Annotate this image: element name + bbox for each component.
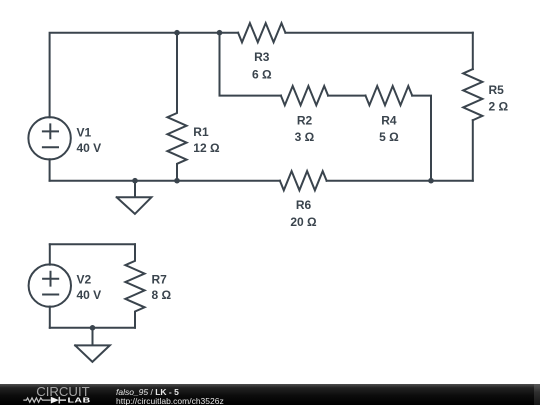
- wire R6 right through node C to bottom-right corner: [327, 180, 473, 182]
- resistor R7 with leads: [125, 244, 144, 327]
- svg-text:LAB: LAB: [67, 396, 90, 404]
- svg-text:R3: R3: [254, 50, 270, 64]
- resistor R2: [281, 86, 328, 105]
- svg-text:3 Ω: 3 Ω: [295, 130, 315, 144]
- svg-text:40 V: 40 V: [77, 288, 102, 302]
- wire V2 top lead: [49, 244, 51, 264]
- junction dot R1 bottom: [174, 178, 180, 184]
- resistor R1 with leads: [167, 33, 186, 181]
- V1 plus sign: [43, 124, 58, 138]
- footer url line: [116, 397, 224, 406]
- svg-text:12 Ω: 12 Ω: [193, 141, 220, 155]
- voltage source V1 circle: [28, 117, 70, 159]
- svg-text:V2: V2: [77, 272, 92, 286]
- wire top-left from V1 top up and right to node A: [50, 33, 177, 118]
- V1 minus sign: [43, 146, 58, 148]
- svg-text:R4: R4: [381, 114, 397, 128]
- junction dot ground tap: [132, 178, 138, 184]
- footer title line: [116, 388, 179, 397]
- ground symbol under bottom rail: [117, 181, 152, 214]
- wire V1 bottom lead: [49, 159, 51, 181]
- svg-text:6 Ω: 6 Ω: [252, 67, 272, 81]
- footer bar: [0, 384, 540, 405]
- svg-text:8 Ω: 8 Ω: [152, 288, 172, 302]
- node B junction dot: [217, 30, 223, 36]
- svg-text:R7: R7: [152, 272, 168, 286]
- resistor R5: [463, 69, 482, 120]
- node C junction dot: [428, 178, 434, 184]
- wire R4 right then down to node C: [412, 96, 431, 181]
- ground symbol lower circuit: [75, 328, 110, 362]
- svg-text:R1: R1: [193, 125, 209, 139]
- resistor R3: [238, 23, 285, 42]
- svg-text:40 V: 40 V: [77, 141, 102, 155]
- wire V2 bottom lead: [49, 307, 51, 328]
- CircuitLab logo wordmark: [0, 384, 110, 405]
- svg-text:R5: R5: [489, 83, 505, 97]
- junction dot lower ground tap: [90, 325, 96, 331]
- svg-text:5 Ω: 5 Ω: [379, 130, 399, 144]
- logo diode: [51, 397, 59, 404]
- wire R3 right to top-right corner: [285, 32, 472, 34]
- wire V2 top rail to R7: [50, 243, 135, 245]
- wire V2 bottom rail to R7 bottom: [50, 327, 135, 329]
- resistor R6: [280, 171, 327, 190]
- wire R2 to R4: [328, 95, 365, 97]
- wire R5 bottom down to bottom-right corner: [472, 120, 474, 181]
- footer right edge highlight: [534, 384, 540, 405]
- logo resistor squiggle: [23, 398, 50, 402]
- wire node A to node B: [177, 32, 220, 34]
- svg-text:2 Ω: 2 Ω: [489, 100, 509, 114]
- svg-text:20 Ω: 20 Ω: [290, 215, 317, 229]
- wire top-right corner down to R5: [472, 33, 474, 69]
- wire node B down to R2 row: [220, 33, 281, 96]
- V2 minus sign: [43, 294, 58, 296]
- V2 plus sign: [43, 272, 58, 286]
- resistor R4: [366, 86, 413, 105]
- wire node B to R3 left lead: [220, 32, 239, 34]
- svg-text:R2: R2: [297, 114, 313, 128]
- svg-text:V1: V1: [77, 125, 92, 139]
- voltage source V2 circle: [29, 264, 71, 306]
- node A junction dot: [174, 30, 180, 36]
- svg-text:R6: R6: [296, 198, 312, 212]
- wire bottom rail V1 to R6: [50, 180, 280, 182]
